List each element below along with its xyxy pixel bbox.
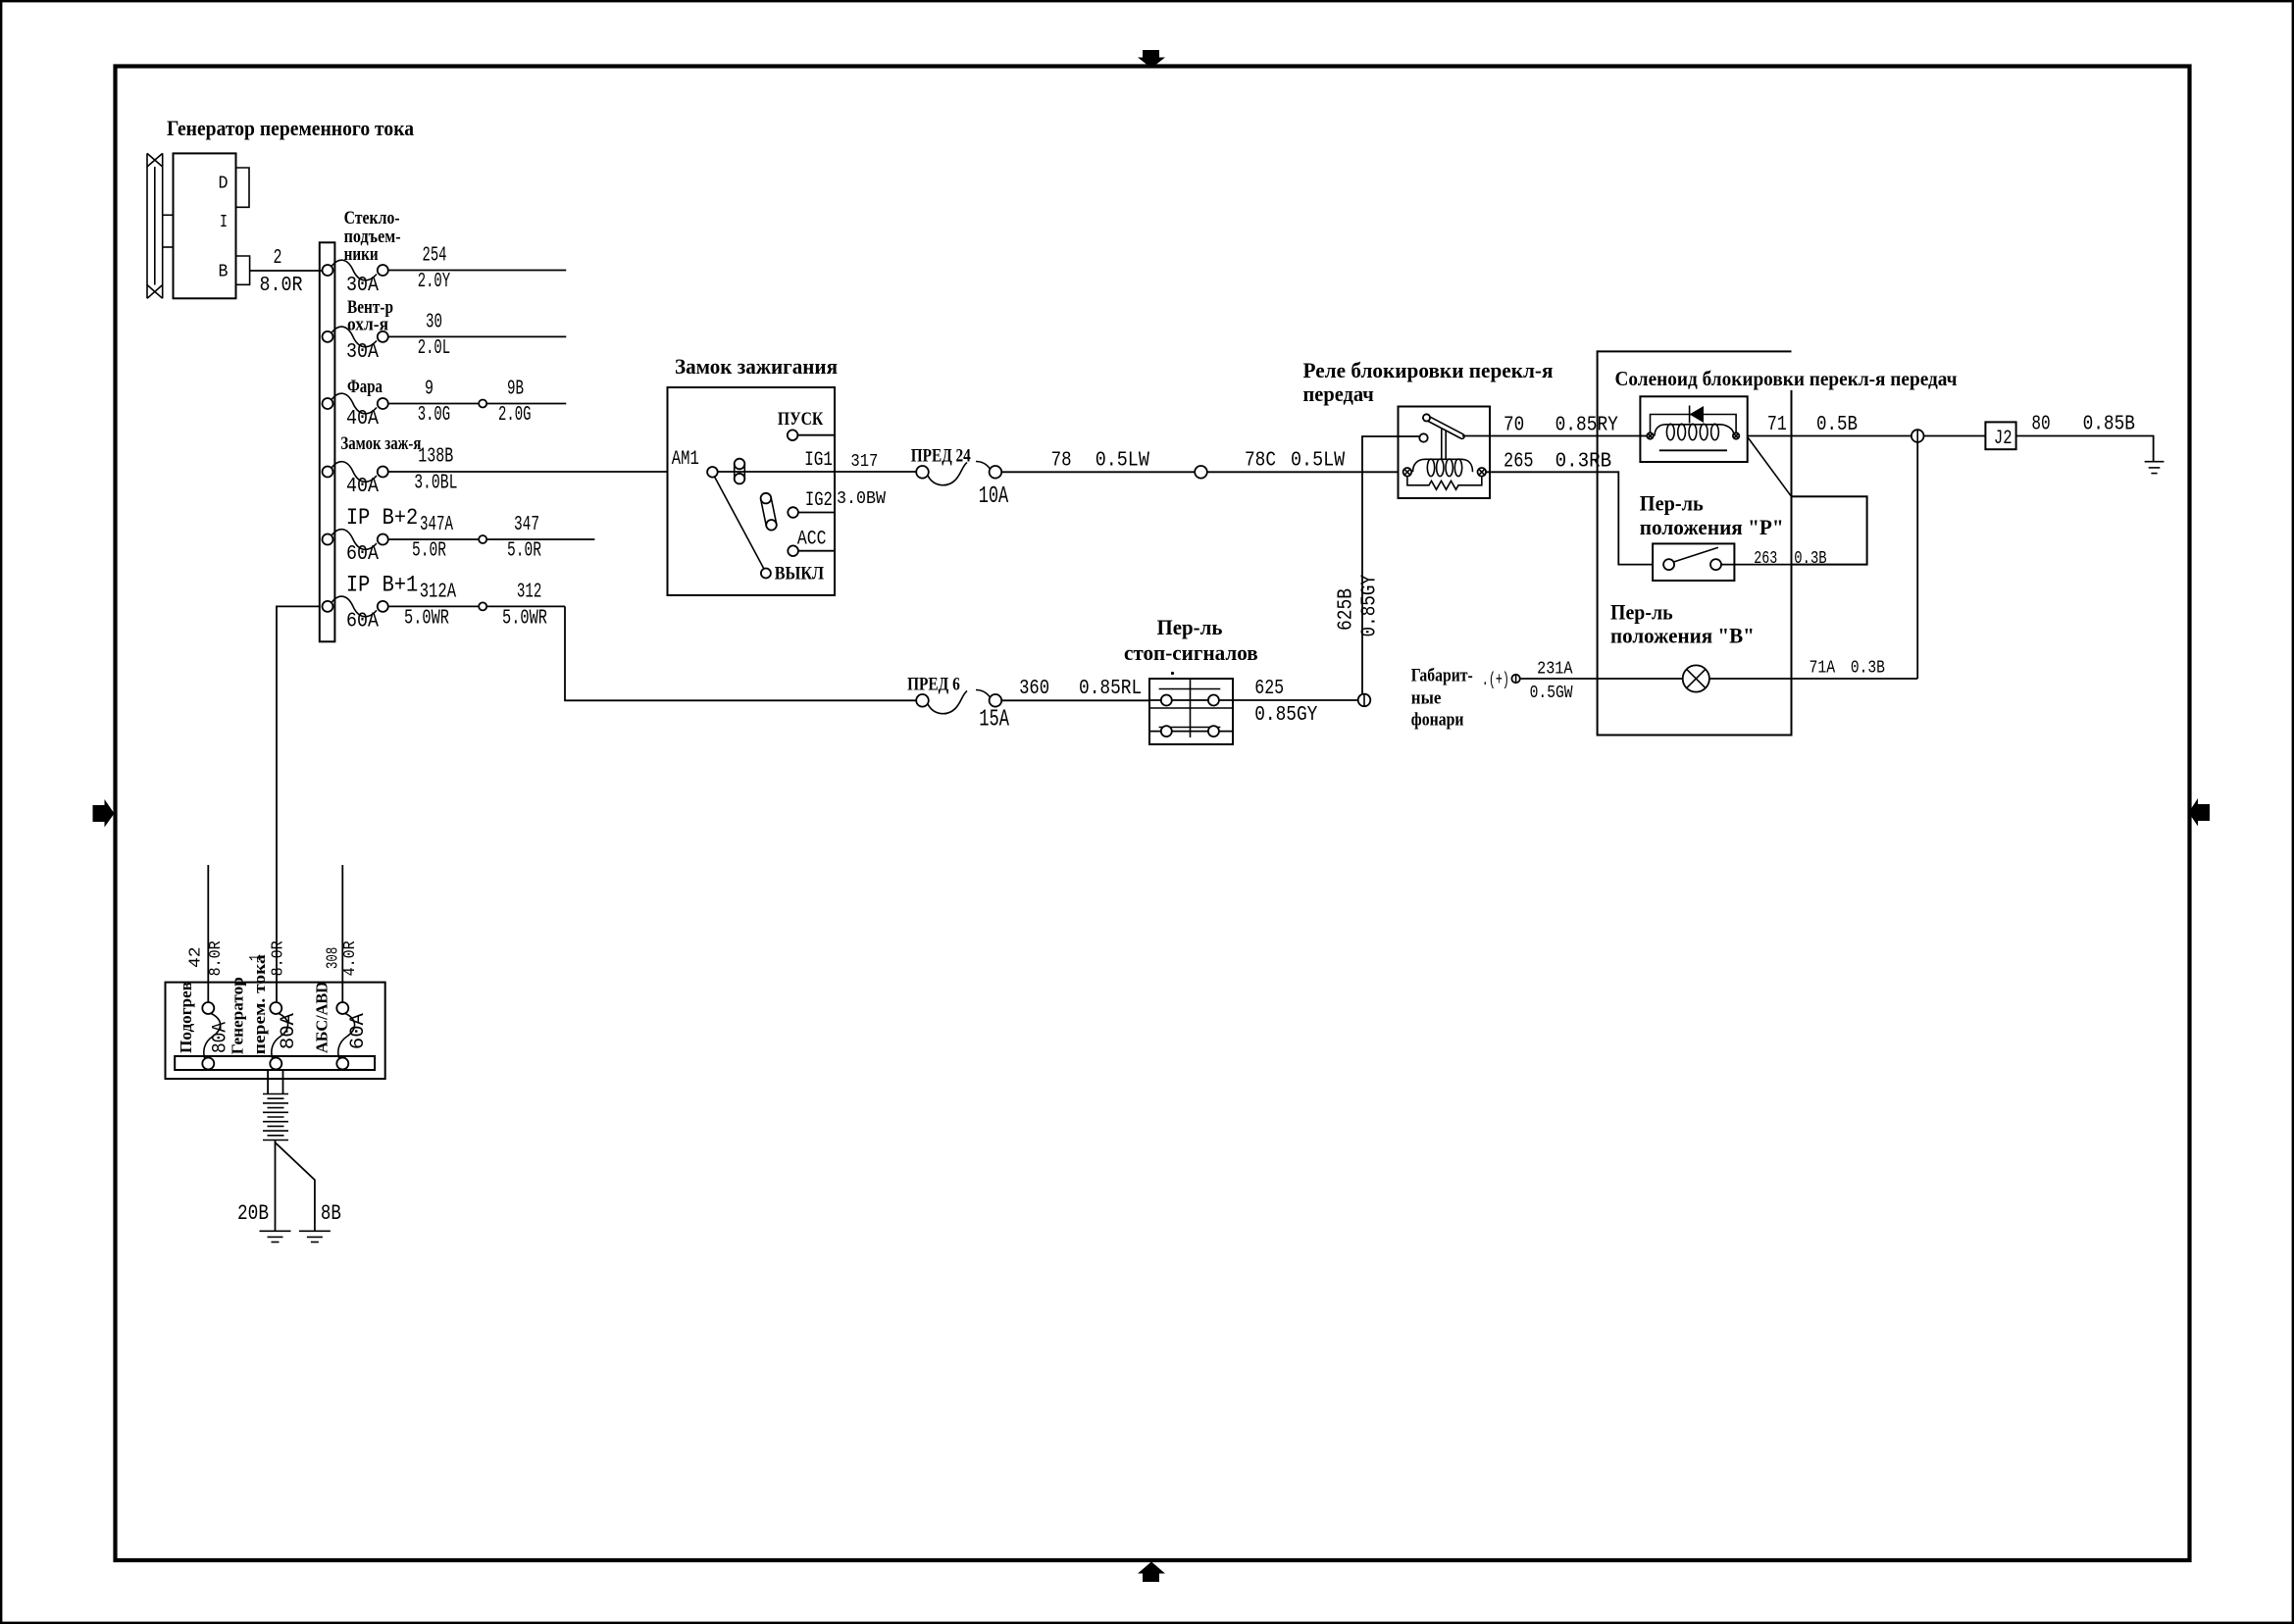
solenoid inner box L1 — [1640, 396, 1747, 462]
fuse F2 30A Вент-р охл-я — [323, 327, 388, 347]
svg-text:347: 347 — [514, 514, 539, 536]
coil terminal right — [1733, 432, 1739, 438]
wire 138B 3.0BL to ignition switch — [388, 471, 668, 473]
registration arrow right — [2189, 798, 2211, 827]
P switch lever — [1674, 547, 1718, 562]
wire 263 0.3B — [1721, 564, 1792, 566]
wire 70 inside to coil — [1640, 435, 1654, 437]
svg-text:стоп-сигналов: стоп-сигналов — [1124, 640, 1258, 665]
fuse F3 40A Фара — [323, 393, 388, 414]
svg-text:АБС/ABD: АБС/ABD — [313, 982, 331, 1053]
svg-text:60А: 60А — [346, 543, 379, 566]
wire 71A 0.3B — [1709, 678, 1917, 680]
diode D1 — [1690, 406, 1704, 424]
svg-text:ПУСК: ПУСК — [778, 409, 824, 430]
svg-text:0.3B: 0.3B — [1851, 659, 1885, 679]
svg-text:передач: передач — [1303, 381, 1374, 406]
fuse 80A Генератор — [270, 1002, 287, 1070]
svg-text:312A: 312A — [420, 582, 457, 604]
svg-text:Пер-ль: Пер-ль — [1157, 615, 1223, 639]
ignition switch box S1 — [668, 387, 836, 595]
stray dot — [1171, 672, 1174, 675]
top contact wire + terminals — [1149, 699, 1233, 701]
svg-text:2.0Y: 2.0Y — [418, 271, 451, 293]
svg-text:IP B+2: IP B+2 — [346, 505, 418, 531]
wire 625B vertical down — [1361, 472, 1363, 700]
wire battery to ground 8B — [276, 1142, 315, 1231]
fuse F5 60A IP B+2 — [323, 530, 388, 550]
bottom contact bar — [1159, 727, 1221, 729]
wire 231A 0.5GW — [1520, 678, 1683, 680]
terminal ACC — [788, 545, 798, 556]
svg-text:Генератор: Генератор — [229, 977, 247, 1054]
relay fixed contact — [1419, 433, 1427, 441]
svg-text:2: 2 — [274, 247, 282, 270]
svg-text:0.3B: 0.3B — [1794, 549, 1826, 569]
wire from bus to battery feed (left of bus, down to lower fuse box) — [277, 606, 320, 1001]
svg-text:71: 71 — [1767, 414, 1787, 436]
svg-text:80: 80 — [2031, 414, 2050, 436]
svg-text:30: 30 — [426, 312, 442, 334]
P switch box S3 — [1653, 543, 1734, 581]
solenoid unit box outline — [1598, 350, 1792, 352]
svg-text:8.0R: 8.0R — [270, 940, 288, 976]
coil terminal left — [1647, 432, 1653, 438]
diagonal link to P switch frame — [1748, 437, 1792, 497]
svg-text:J2: J2 — [1994, 428, 2013, 450]
diode bypass wiring — [1651, 415, 1737, 433]
wire 2 8.0R from B to fuse panel — [250, 270, 323, 272]
svg-text:625: 625 — [1254, 678, 1284, 700]
svg-text:перем. тока: перем. тока — [250, 954, 269, 1055]
registration arrow top — [1138, 50, 1165, 69]
wire 80 0.85B to ground — [2016, 436, 2154, 462]
svg-text:5.0R: 5.0R — [507, 540, 541, 563]
wire 360 0.85RL — [1001, 699, 1149, 701]
registration arrow bottom — [1138, 1562, 1165, 1583]
svg-text:фонари: фонари — [1411, 710, 1464, 731]
movable contact capsule IG2 (tilted) — [761, 493, 777, 531]
svg-text:60А: 60А — [346, 611, 379, 634]
fuse F4 40A Замок заж-я — [323, 462, 388, 482]
svg-text:40А: 40А — [346, 408, 379, 431]
svg-text:ПРЕД 24: ПРЕД 24 — [911, 446, 971, 467]
svg-text:положения "Р": положения "Р" — [1640, 515, 1784, 539]
junction connector on wire 347 — [479, 535, 486, 543]
junction connector 71/71A — [1912, 430, 1924, 442]
wire from F6 down to stop lamp fuse branch — [565, 606, 916, 700]
svg-text:308: 308 — [325, 947, 343, 969]
notch box on solenoid unit — [1792, 496, 1867, 564]
svg-text:80А: 80А — [278, 1013, 300, 1049]
junction connector on wire 78 — [1195, 466, 1207, 479]
svg-text:10A: 10A — [979, 483, 1009, 510]
svg-text:5.0WR: 5.0WR — [404, 608, 449, 631]
svg-text:70: 70 — [1504, 415, 1524, 437]
fuse F6 60A IP B+1 — [323, 596, 388, 617]
svg-text:положения "В": положения "В" — [1610, 624, 1755, 648]
wire 254 2.0Y — [388, 270, 567, 272]
movable contact capsule IG1 — [735, 459, 745, 484]
svg-text:Стекло-: Стекло- — [344, 208, 400, 228]
feed wire Подогрев — [207, 865, 209, 1002]
wire 625 0.85GY to junction — [1233, 699, 1364, 701]
wire 71 0.5B — [1748, 435, 1986, 437]
svg-text:15A: 15A — [979, 707, 1009, 734]
svg-text:D: D — [219, 175, 229, 194]
terminal AM1 — [707, 467, 718, 478]
svg-text:0.5B: 0.5B — [1816, 414, 1858, 436]
svg-text:8.0R: 8.0R — [207, 940, 226, 976]
lower unit box — [166, 983, 385, 1079]
switch center divider vertical — [1190, 679, 1192, 737]
svg-text:ники: ники — [344, 244, 379, 265]
wire 78 0.5LW — [1001, 471, 1398, 473]
junction connector on wire 9 — [479, 400, 486, 408]
solenoid core — [1659, 449, 1727, 451]
svg-text:Генератор переменного тока: Генератор переменного тока — [167, 116, 414, 140]
wire IG2 stub — [798, 512, 835, 514]
wire 30 2.0L — [388, 335, 567, 337]
relay internal resistor (parallel) — [1407, 477, 1482, 490]
svg-text:347A: 347A — [420, 514, 453, 536]
P switch terminals — [1663, 559, 1674, 570]
pin D tab — [236, 168, 250, 207]
pulley shaft links — [163, 214, 174, 216]
svg-text:IG2: IG2 — [805, 489, 833, 512]
feed wire АБС/ABD — [341, 865, 343, 1002]
svg-text:317: 317 — [850, 452, 878, 472]
svg-text:9: 9 — [425, 379, 433, 401]
coil terminal right — [1478, 468, 1487, 477]
svg-text:71A: 71A — [1810, 659, 1836, 679]
svg-text:ные: ные — [1411, 688, 1442, 709]
switch middle divider horizontal — [1149, 707, 1233, 709]
svg-text:0.3RB: 0.3RB — [1555, 451, 1612, 474]
svg-text:138B: 138B — [418, 446, 453, 469]
svg-text:.(+): .(+) — [1482, 671, 1509, 690]
ground right — [2145, 462, 2165, 474]
registration arrow left — [93, 799, 115, 828]
svg-text:Замок заж-я: Замок заж-я — [340, 433, 421, 454]
wire 312A / 312 with junction — [388, 605, 565, 607]
junction connector 625/625B — [1358, 694, 1371, 707]
battery feed wires — [267, 1070, 269, 1094]
wire IG1 output 317 3.0BW — [835, 471, 916, 473]
svg-text:4.0R: 4.0R — [341, 940, 360, 976]
svg-text:8В: 8В — [321, 1201, 341, 1226]
wire AM1-IG1 through switch — [718, 471, 835, 473]
svg-text:ПРЕД 6: ПРЕД 6 — [907, 675, 960, 695]
terminal ВЫКЛ — [761, 569, 771, 579]
svg-text:5.0R: 5.0R — [412, 540, 446, 563]
svg-text:B: B — [219, 263, 229, 282]
svg-text:Пер-ль: Пер-ль — [1640, 491, 1704, 516]
ground 8B — [299, 1231, 331, 1242]
switch lever AM1-ВЫКЛ — [715, 477, 764, 569]
wire ACC stub — [798, 550, 835, 552]
svg-text:3.0G: 3.0G — [418, 404, 451, 427]
alternator pulley & belt — [147, 153, 163, 298]
svg-text:Фара: Фара — [347, 377, 382, 397]
connector J2 — [1985, 422, 2015, 449]
svg-text:0.85GY: 0.85GY — [1359, 575, 1382, 637]
svg-text:AM1: AM1 — [672, 448, 699, 471]
wire junction down to 71A — [1916, 442, 1918, 679]
terminal IG2 — [788, 507, 798, 518]
svg-text:IP B+1: IP B+1 — [346, 573, 418, 598]
junction connector on wire 312 — [479, 602, 486, 610]
svg-text:Реле блокировки перекл-я: Реле блокировки перекл-я — [1303, 358, 1554, 382]
fuse 60A АБС/ABD — [336, 1002, 354, 1070]
terminal ПУСК — [788, 430, 798, 440]
ground 20B — [260, 1231, 291, 1242]
svg-text:265: 265 — [1504, 451, 1534, 474]
armature link to coil — [1441, 429, 1443, 459]
svg-text:0.85B: 0.85B — [2083, 414, 2135, 436]
wire 9 / 9B with junction — [388, 403, 567, 405]
svg-text:Подогрев: Подогрев — [177, 982, 195, 1053]
svg-text:2.0L: 2.0L — [418, 337, 451, 360]
fuse 80A Подогрев — [202, 1002, 220, 1070]
svg-text:5.0WR: 5.0WR — [502, 608, 547, 631]
svg-text:0.85RL: 0.85RL — [1079, 678, 1142, 700]
fuse F1 30A Стеклоподъемники — [323, 260, 388, 280]
wire 70 output — [1462, 435, 1640, 437]
svg-text:20В: 20В — [237, 1201, 269, 1226]
svg-text:78: 78 — [1051, 450, 1072, 473]
svg-text:40А: 40А — [346, 476, 379, 498]
solenoid coil — [1655, 424, 1734, 439]
svg-text:60А: 60А — [347, 1013, 370, 1049]
svg-text:Габарит-: Габарит- — [1411, 666, 1473, 686]
fuse ПРЕД 6 element — [916, 690, 1001, 714]
svg-text:625B: 625B — [1336, 588, 1358, 631]
svg-text:ACC: ACC — [797, 529, 827, 551]
wire 347A / 347 with junction — [388, 538, 595, 540]
bus bar — [320, 242, 335, 641]
pin B tab — [236, 256, 250, 284]
coil terminal left — [1403, 468, 1412, 477]
svg-text:42: 42 — [187, 946, 206, 968]
svg-text:8.0R: 8.0R — [260, 275, 303, 297]
svg-text:360: 360 — [1019, 678, 1049, 700]
svg-text:I: I — [220, 213, 228, 232]
svg-text:0.5LW: 0.5LW — [1096, 450, 1150, 473]
svg-text:Замок зажигания: Замок зажигания — [675, 354, 838, 379]
wire ПУСК stub — [797, 434, 835, 436]
stop light switch box S2 — [1149, 679, 1233, 744]
battery GB1 — [263, 1094, 288, 1141]
terminal (+) — [1511, 675, 1519, 683]
svg-text:0.85RY: 0.85RY — [1555, 415, 1619, 437]
fuse ПРЕД 24 element — [916, 462, 1001, 485]
lamp B position — [1683, 665, 1709, 691]
svg-text:IG1: IG1 — [804, 449, 833, 472]
alternator body U1 — [174, 153, 236, 298]
svg-text:0.85GY: 0.85GY — [1254, 704, 1318, 727]
lower bus bar — [175, 1056, 375, 1070]
svg-text:254: 254 — [423, 245, 447, 268]
svg-text:ВЫКЛ: ВЫКЛ — [775, 564, 824, 584]
svg-text:2.0G: 2.0G — [498, 404, 532, 427]
bottom contact wire + terminals — [1149, 731, 1233, 733]
svg-text:30А: 30А — [346, 341, 379, 364]
svg-text:Пер-ль: Пер-ль — [1610, 600, 1673, 625]
relay armature bar — [1423, 414, 1464, 438]
svg-text:охл-я: охл-я — [347, 315, 388, 335]
svg-text:0.5LW: 0.5LW — [1291, 450, 1346, 473]
svg-text:Соленоид блокировки перекл-я п: Соленоид блокировки перекл-я передач — [1615, 367, 1958, 390]
top contact bar — [1159, 688, 1221, 690]
svg-text:30А: 30А — [346, 275, 379, 297]
svg-text:263: 263 — [1754, 549, 1777, 569]
svg-text:3.0BW: 3.0BW — [837, 489, 886, 509]
wire T branch up to relay contact — [1362, 436, 1419, 472]
relay box K1 — [1399, 407, 1491, 499]
svg-text:3.0BL: 3.0BL — [414, 473, 457, 495]
svg-text:231A: 231A — [1537, 660, 1573, 680]
svg-text:312: 312 — [517, 582, 542, 604]
svg-text:9B: 9B — [507, 379, 524, 401]
svg-text:0.5GW: 0.5GW — [1530, 684, 1573, 703]
svg-text:78C: 78C — [1245, 450, 1276, 473]
relay coil — [1413, 459, 1473, 477]
wire battery to ground 20B — [275, 1141, 277, 1232]
wire 265 0.3RB output — [1486, 472, 1653, 564]
